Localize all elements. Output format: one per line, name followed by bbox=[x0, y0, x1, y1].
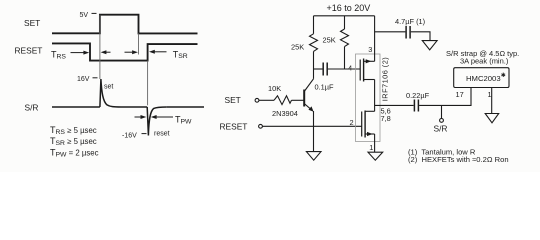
capacitor 0.1uF bbox=[323, 63, 327, 76]
svg-text:5V: 5V bbox=[80, 12, 89, 19]
svg-text:1: 1 bbox=[488, 90, 492, 99]
TSR arrow bbox=[149, 50, 167, 54]
svg-text:set: set bbox=[104, 84, 113, 91]
svg-text:16V: 16V bbox=[77, 76, 90, 83]
svg-text:✱: ✱ bbox=[501, 72, 506, 79]
svg-text:3A peak (min.): 3A peak (min.) bbox=[460, 57, 509, 66]
wire S/R output line bbox=[375, 104, 414, 106]
svg-text:2N3904: 2N3904 bbox=[272, 109, 298, 118]
-16V tick bbox=[142, 133, 147, 135]
capacitor 4.7uF bbox=[406, 26, 410, 39]
resistor 25K left bbox=[310, 34, 318, 52]
svg-text:25K: 25K bbox=[291, 43, 304, 52]
svg-text:1: 1 bbox=[369, 143, 373, 152]
set spike bbox=[100, 79, 121, 107]
svg-text:0.22µF: 0.22µF bbox=[406, 91, 430, 100]
wire right branch lower (to gate node 4) bbox=[344, 47, 346, 69]
RESET waveform bbox=[52, 43, 198, 60]
transistor Q3 source stub bbox=[364, 79, 375, 81]
svg-text:-16V: -16V bbox=[122, 133, 137, 140]
transistor Q1 emitter lead with arrow bbox=[304, 104, 313, 112]
svg-text:2: 2 bbox=[350, 118, 354, 127]
terminal RESET bbox=[259, 124, 263, 128]
wire 0.22uF to pin 17 bbox=[419, 88, 471, 106]
svg-text:RESET: RESET bbox=[15, 46, 43, 56]
svg-text:reset: reset bbox=[154, 131, 170, 138]
ground (HMC2003 pin 1) bbox=[485, 114, 499, 123]
resistor 10K bbox=[274, 96, 292, 105]
transistor Q2 drain stub bbox=[365, 110, 375, 112]
transistor Q2 channel bar bbox=[364, 111, 366, 138]
16V tick bbox=[93, 77, 98, 79]
wire emitter down to ground bbox=[313, 111, 315, 152]
TRS arrow bbox=[71, 51, 90, 55]
svg-text:25K: 25K bbox=[323, 36, 336, 45]
transistor Q1 collector lead bbox=[304, 79, 313, 92]
SET waveform bbox=[52, 15, 198, 34]
svg-text:4.7µF (1): 4.7µF (1) bbox=[395, 17, 425, 26]
TPW arrows bbox=[135, 115, 174, 119]
S/R baseline middle bbox=[121, 106, 147, 108]
terminal SET bbox=[255, 98, 259, 102]
svg-text:(2) HEXFETs with ≈0.2Ω Ron: (2) HEXFETs with ≈0.2Ω Ron bbox=[408, 155, 509, 164]
svg-text:10K: 10K bbox=[268, 84, 281, 93]
transistor Q1 2N3904 base bar bbox=[303, 90, 305, 107]
svg-text:SET: SET bbox=[24, 18, 40, 28]
S/R baseline left bbox=[52, 106, 100, 108]
ground (emitter) bbox=[306, 152, 321, 161]
svg-text:4: 4 bbox=[348, 64, 352, 73]
svg-text:7,8: 7,8 bbox=[381, 114, 391, 123]
S/R baseline right bbox=[167, 106, 204, 108]
wire SET to 10K bbox=[259, 99, 274, 101]
svg-text:17: 17 bbox=[456, 90, 464, 99]
wire 4.7uF to ground bbox=[411, 32, 430, 41]
wire pin 1 to ground bbox=[491, 88, 493, 114]
wire Q2 source to ground bbox=[374, 134, 376, 152]
guide line at RESET rise (x=147.8) bbox=[147, 61, 149, 106]
guide line at SET rise (x=100) bbox=[99, 15, 101, 79]
svg-text:RESET: RESET bbox=[220, 121, 248, 131]
transistor Q2 source stub with arrow bbox=[365, 132, 375, 136]
wire to 4.7uF bbox=[375, 31, 406, 33]
5V level tick bbox=[92, 12, 97, 14]
svg-text:0.1µF: 0.1µF bbox=[315, 83, 335, 92]
svg-text:S/R: S/R bbox=[25, 103, 39, 113]
guide line at SET fall (x=138.5) bbox=[138, 33, 140, 54]
capacitor 0.22uF bbox=[414, 100, 418, 112]
terminal S/R bbox=[440, 119, 444, 123]
wire right branch upper bbox=[344, 16, 346, 29]
resistor 25K right bbox=[341, 29, 349, 47]
svg-text:+16 to 20V: +16 to 20V bbox=[327, 3, 371, 13]
wire left branch upper bbox=[313, 16, 315, 34]
transistor Q3 channel bar bbox=[363, 59, 365, 82]
transistor Q3 drain stub with arrow bbox=[364, 59, 375, 63]
svg-text:3: 3 bbox=[368, 45, 372, 54]
wire left branch lower (to collector / cap junction) bbox=[313, 51, 315, 78]
ground (4.7uF) bbox=[422, 41, 437, 50]
package box IRF7106 bbox=[356, 54, 381, 142]
wire RESET to gate of Q2 bbox=[263, 125, 362, 127]
reset spike bbox=[147, 107, 167, 136]
transistor Q2 lower MOSFET gate bar bbox=[361, 112, 363, 137]
wire supply rail bbox=[314, 15, 375, 17]
transistor Q3 upper MOSFET gate bar bbox=[359, 60, 361, 81]
wire gate line to Q3 bbox=[328, 68, 360, 70]
svg-text:HMC2003: HMC2003 bbox=[466, 74, 501, 83]
IC U1 HMC2003 box bbox=[454, 68, 509, 88]
wire 10K to base bbox=[292, 99, 304, 101]
ground (Q2 source) bbox=[368, 152, 383, 160]
wire S/R tap down bbox=[441, 105, 443, 118]
svg-text:IRF7106 (2): IRF7106 (2) bbox=[381, 57, 390, 101]
wire drain up to rail corner bbox=[374, 16, 376, 62]
wire cap line left bbox=[314, 68, 323, 70]
svg-text:SET: SET bbox=[225, 95, 241, 105]
pulse width dimension arrows bbox=[101, 50, 138, 54]
svg-text:S/R: S/R bbox=[434, 124, 448, 134]
wire Q3 source to Q2 drain bbox=[374, 80, 376, 112]
